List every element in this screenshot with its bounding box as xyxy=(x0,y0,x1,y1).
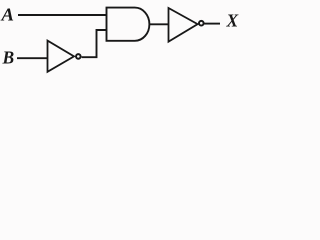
svg-text:X: X xyxy=(226,10,240,30)
wire AND gate output to inverter U3 input xyxy=(149,23,169,25)
wire inverter U3 output to X xyxy=(204,23,220,25)
inverter U1 output bubble xyxy=(76,54,81,59)
inverter U3 (output NOT gate) triangle xyxy=(169,8,198,42)
wire B to inverter U1 input xyxy=(17,57,48,59)
svg-text:B: B xyxy=(2,47,15,67)
wire A to AND gate input 1 xyxy=(18,14,107,16)
svg-text:A: A xyxy=(0,4,14,24)
inverter U3 output bubble xyxy=(199,21,204,26)
inverter U1 (NOT gate on B) triangle xyxy=(48,41,75,72)
AND gate U2 body xyxy=(107,8,150,41)
wire inverter U1 output to AND gate input 2 (right, up, right) xyxy=(82,30,107,57)
